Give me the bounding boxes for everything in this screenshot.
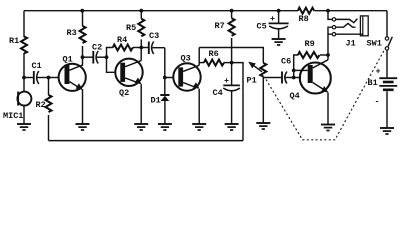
node R4/R5/C3: [139, 46, 143, 50]
ground (B1): [380, 128, 394, 134]
node rail-J1: [326, 9, 330, 13]
ground (C4): [225, 124, 239, 130]
capacitor C3: [141, 31, 165, 54]
svg-text:R4: R4: [117, 35, 127, 45]
resistor R2: [36, 78, 52, 113]
wire Q2 base leg: [107, 57, 116, 72]
wire Q4 collector: [327, 55, 329, 60]
ground (mic): [17, 124, 31, 130]
svg-text:+: +: [376, 67, 381, 77]
svg-text:R9: R9: [305, 39, 315, 49]
svg-text:+: +: [224, 76, 229, 86]
capacitor C6: [263, 57, 293, 84]
svg-text:Q2: Q2: [119, 88, 129, 98]
node rail-C5: [277, 9, 281, 13]
battery B1: [368, 50, 398, 127]
node C2/R4/Q2 base: [105, 55, 109, 59]
wire J1 lower branch: [328, 27, 332, 55]
svg-text:R1: R1: [9, 36, 19, 46]
wire Q1 emitter to ground: [82, 89, 84, 123]
resistor R4: [113, 35, 142, 51]
svg-text:C3: C3: [149, 31, 159, 41]
resistor R3: [67, 11, 86, 43]
node mic/C1: [22, 76, 26, 80]
wire feedback vertical to C4 node: [232, 63, 243, 141]
node R6/R7/C4: [230, 61, 234, 65]
wire J1 branch from rail: [328, 11, 332, 20]
wire bottom feedback rail: [49, 140, 244, 142]
wire base to Q4: [294, 69, 308, 71]
resistor R1: [9, 36, 27, 54]
node Q3 base / D1: [163, 76, 167, 80]
ground (C5): [272, 39, 286, 45]
wire C6 to Q4: [294, 77, 301, 79]
jack J1: [332, 16, 368, 48]
svg-text:R6: R6: [209, 49, 219, 59]
wire Q2 collector to node: [140, 48, 142, 61]
wire Q4 emitter to ground: [327, 93, 329, 125]
node rail-R3: [80, 9, 84, 13]
svg-text:R2: R2: [36, 100, 46, 110]
svg-text:+: +: [270, 14, 275, 24]
svg-text:D1: D1: [151, 96, 161, 106]
wire left column: [23, 11, 25, 37]
ground (Q1): [76, 124, 90, 130]
svg-text:B1: B1: [368, 78, 378, 88]
wire R1 to C1 node: [23, 53, 25, 78]
resistor R7: [215, 11, 235, 63]
switch SW1: [367, 11, 393, 50]
diode D1: [151, 78, 170, 124]
capacitor C2: [83, 43, 107, 64]
svg-text:Q3: Q3: [181, 54, 191, 64]
wire Q3 collector up: [198, 48, 200, 66]
node Q1 collector / C2: [81, 55, 85, 59]
svg-text:R5: R5: [126, 23, 136, 33]
ground (Q2): [134, 124, 148, 130]
node R9/collector/J1: [326, 53, 330, 57]
wire Q2 emitter to ground: [140, 84, 142, 123]
svg-text:R8: R8: [299, 14, 309, 24]
wire C3 to Q3 base node: [164, 48, 166, 78]
resistor R9: [298, 39, 328, 58]
resistor R6: [199, 49, 231, 66]
svg-text:Q4: Q4: [290, 91, 300, 101]
ground (Q4): [321, 125, 335, 131]
svg-text:P1: P1: [247, 76, 257, 86]
wire Q3 collector to P1 top: [199, 48, 263, 64]
svg-text:C6: C6: [281, 57, 291, 67]
wire P1 bottom to ground: [262, 77, 264, 123]
svg-text:R3: R3: [67, 28, 77, 38]
capacitor C4: [213, 63, 240, 124]
node C6 corner: [292, 76, 296, 80]
potentiometer P1: [247, 62, 267, 86]
node rail-R5: [139, 9, 143, 13]
svg-text:C4: C4: [213, 88, 223, 98]
svg-text:Q1: Q1: [63, 55, 73, 65]
transistor Q2: [115, 59, 142, 98]
wire dashed mechanical link P1-SW1: [266, 48, 386, 140]
svg-text:C5: C5: [257, 22, 267, 32]
wire R2 to bottom feedback rail: [48, 115, 50, 141]
wire Q3 emitter to ground: [198, 89, 200, 124]
wire collector to R3: [82, 46, 84, 57]
svg-text:MIC1: MIC1: [3, 111, 23, 121]
resistor R8: [298, 8, 314, 24]
node rail-R7: [230, 9, 234, 13]
transistor Q4: [290, 60, 331, 101]
node C1/R2/Q1: [47, 76, 51, 80]
svg-text:R7: R7: [215, 21, 225, 31]
node R9/base: [292, 69, 296, 73]
svg-text:J1: J1: [346, 38, 356, 48]
capacitor C5: [257, 11, 289, 39]
transistor Q3: [165, 54, 201, 91]
wire Q1 collector: [82, 57, 84, 66]
ground (Q3): [192, 124, 206, 130]
ground (P1): [256, 123, 270, 129]
svg-text:C1: C1: [32, 61, 42, 71]
svg-text:-: -: [375, 97, 380, 107]
wire Q4 base node vertical: [294, 55, 298, 78]
svg-text:C2: C2: [92, 43, 102, 53]
wire R4 left leg: [107, 48, 113, 58]
ground (D1): [158, 124, 172, 130]
capacitor C1: [24, 61, 49, 84]
resistor R5: [126, 11, 144, 48]
svg-text:SW1: SW1: [367, 38, 382, 48]
microphone MIC1: [3, 78, 31, 124]
transistor Q1: [49, 55, 86, 91]
wire top supply rail: [24, 10, 387, 12]
